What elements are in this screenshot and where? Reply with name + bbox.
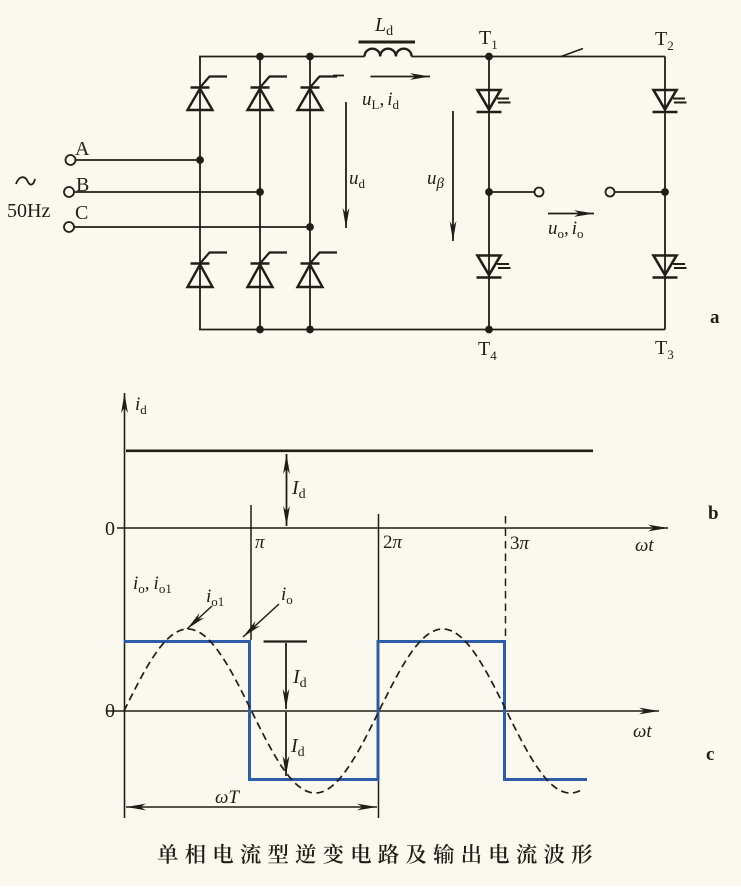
wire: inverter left leg vertical (T1/T4): [488, 57, 490, 330]
thyristor VT5 (rectifier bottom row, leg 2): [248, 253, 288, 288]
wire: rectifier leg 2 vertical: [259, 57, 261, 330]
omega-T dimension arrows: [126, 806, 377, 808]
wire: inverter right leg vertical (T2/T3): [664, 57, 666, 330]
plot b horizontal axis: [117, 527, 668, 529]
wire: output right with open terminal: [606, 188, 669, 197]
wire: output left with open terminal: [485, 188, 543, 197]
svg-text:2π: 2π: [383, 532, 403, 553]
svg-text:3π: 3π: [510, 533, 530, 554]
thyristor T1: [477, 90, 511, 112]
svg-text:B: B: [76, 174, 89, 196]
arrow uo,io output: [548, 213, 594, 215]
thyristor VT6 (rectifier bottom row, leg 3): [298, 253, 338, 288]
svg-text:C: C: [75, 202, 88, 224]
svg-text:50Hz: 50Hz: [7, 200, 50, 222]
thyristor VT3 (rectifier top row, leg 3): [298, 77, 338, 111]
svg-text:A: A: [75, 138, 90, 160]
svg-text:π: π: [255, 532, 265, 553]
2pi tick line: [378, 514, 380, 641]
3pi dashed line: [505, 516, 507, 640]
wire: rectifier leg 3 vertical: [309, 57, 311, 330]
junction dots top rail: [256, 53, 493, 61]
inductor Ld coil: [365, 49, 412, 57]
caption: 单相电流型逆变电路及输出电流波形: [158, 844, 592, 864]
arrow ud voltage: [345, 102, 347, 228]
thyristor VT4 (rectifier bottom row, leg 1): [188, 253, 228, 288]
plot b/c shared vertical axis: [124, 393, 126, 818]
node B: phase B wire + terminal: [64, 187, 264, 197]
svg-text:a: a: [710, 307, 720, 328]
plot b flat id line: [126, 449, 593, 452]
square wave io (blue): [124, 642, 587, 780]
svg-text:ωt: ωt: [633, 721, 652, 742]
plot b Id double arrow: [286, 454, 288, 526]
svg-text:b: b: [708, 503, 719, 524]
thyristor T2: [653, 90, 687, 112]
wire: rectifier leg 1 vertical: [199, 57, 201, 330]
dashed sine io1 fundamental: [124, 629, 583, 793]
arrow uL,id current direction: [333, 76, 430, 77]
2pi vertical extension for measure: [378, 781, 380, 818]
thyristor T4: [477, 256, 511, 278]
arrow Id upper (plot c): [285, 643, 287, 709]
arrow Id lower (plot c): [285, 712, 287, 776]
wire: dc top rail: [199, 56, 365, 58]
Id level reference bar (plot c): [264, 640, 308, 642]
pi tick line: [250, 505, 252, 640]
svg-text:ωt: ωt: [635, 535, 654, 556]
node C: phase C wire + terminal: [64, 222, 314, 232]
junction dots bottom rail: [256, 326, 493, 334]
wire: dc bottom rail: [199, 329, 665, 331]
wire tick between T1 and T2: [561, 49, 583, 57]
inductor Ld iron core bar: [359, 41, 416, 44]
svg-text:ωT: ωT: [215, 787, 240, 808]
thyristor T3: [653, 256, 687, 278]
svg-text:c: c: [706, 744, 714, 765]
ac source tilde symbol: [16, 177, 35, 184]
thyristor VT1 (rectifier top row, leg 1): [188, 77, 228, 111]
plot c horizontal axis: [107, 710, 659, 712]
node A: phase A wire + terminal: [66, 155, 204, 165]
thyristor VT2 (rectifier top row, leg 2): [248, 77, 288, 111]
svg-text:0: 0: [105, 518, 115, 540]
arrow u-beta voltage: [452, 111, 454, 241]
svg-text:0: 0: [105, 700, 115, 722]
